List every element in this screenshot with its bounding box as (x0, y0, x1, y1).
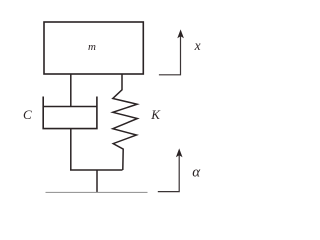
damper C piston plate (43, 106, 97, 108)
spring K (113, 74, 138, 170)
svg-text:α: α (192, 165, 201, 181)
wire: damper top rod (70, 74, 72, 107)
x axis arrow (159, 36, 181, 75)
wire: center rod to ground (96, 170, 98, 192)
svg-text:K: K (150, 107, 161, 122)
alpha axis arrow (158, 155, 179, 192)
mass box m (44, 22, 143, 74)
svg-text:x: x (194, 38, 201, 53)
svg-text:C: C (23, 107, 32, 122)
wire: damper bottom rod (70, 129, 72, 170)
svg-text:m: m (88, 41, 96, 53)
wire: bottom bar (70, 169, 123, 171)
ground line (46, 191, 148, 193)
damper C cylinder (43, 97, 97, 129)
